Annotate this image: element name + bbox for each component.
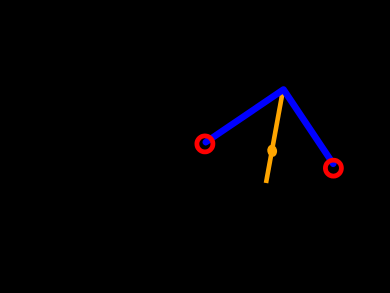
arrowhead bbox=[266, 144, 278, 158]
node A: left mass ring marker bbox=[197, 136, 213, 152]
node B: right mass ring marker bbox=[325, 160, 341, 176]
wire: blue two-link rod bbox=[206, 90, 333, 164]
arrow shaft (orange vector from apex joint) bbox=[266, 90, 283, 183]
